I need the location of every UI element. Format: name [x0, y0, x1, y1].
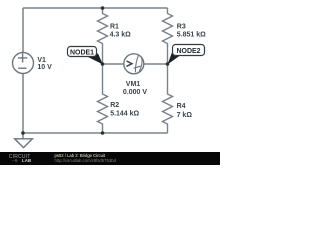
wire left rail upper [22, 8, 24, 53]
svg-text:5.851 kΩ: 5.851 kΩ [177, 31, 206, 38]
svg-text:−≡·: −≡· [12, 158, 19, 163]
junction dot ground tap [21, 131, 25, 135]
svg-text:VM1: VM1 [126, 81, 141, 88]
junction dot top R1 tap [101, 6, 105, 10]
node label NODE2 [168, 45, 205, 65]
svg-text:R3: R3 [177, 24, 186, 31]
wire node1 to voltmeter [103, 63, 124, 65]
wire left rail lower [22, 74, 24, 133]
svg-text:NODE1: NODE1 [70, 49, 94, 56]
svg-text:4.3 kΩ: 4.3 kΩ [110, 31, 132, 38]
svg-text:R2: R2 [110, 102, 119, 109]
resistor R1 [98, 8, 132, 64]
svg-text:10 V: 10 V [37, 64, 52, 71]
svg-text:0.000 V: 0.000 V [123, 89, 147, 96]
node label NODE1 [68, 47, 104, 65]
resistor R2 [98, 64, 140, 133]
junction dot node A (NODE1) [101, 62, 105, 66]
wire bottom rail [23, 132, 168, 134]
svg-text:R1: R1 [110, 24, 119, 31]
junction dot bottom R2 tap [101, 131, 105, 135]
svg-text:5.144 kΩ: 5.144 kΩ [110, 111, 139, 118]
svg-text:http://circuitlab.com/c8fsd5T5: http://circuitlab.com/c8fsd5T53bd [55, 158, 117, 163]
svg-text:R4: R4 [177, 103, 186, 110]
wire top rail [23, 7, 168, 9]
svg-text:7 kΩ: 7 kΩ [177, 112, 193, 119]
resistor R3 [163, 8, 207, 64]
footer bar [0, 152, 220, 165]
voltage source V1 [13, 53, 53, 74]
junction dot node B (NODE2) [166, 62, 170, 66]
svg-text:LAB: LAB [22, 158, 32, 163]
resistor R4 [163, 64, 193, 133]
ground [15, 133, 33, 148]
voltmeter VM1 [123, 54, 147, 96]
svg-text:NODE2: NODE2 [176, 48, 200, 55]
svg-text:V1: V1 [37, 57, 46, 64]
wire voltmeter to node2 [144, 63, 168, 65]
